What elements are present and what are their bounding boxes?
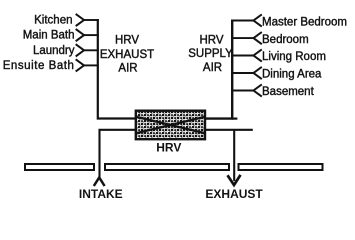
svg-text:Basement: Basement (262, 86, 315, 98)
svg-text:Dining Area: Dining Area (262, 69, 322, 81)
svg-text:Laundry: Laundry (33, 45, 75, 57)
svg-text:INTAKE: INTAKE (79, 187, 123, 201)
svg-text:Main Bath: Main Bath (23, 30, 75, 42)
svg-text:HRV: HRV (115, 35, 139, 47)
svg-text:SUPPLY: SUPPLY (188, 48, 233, 60)
svg-text:EXHAUST: EXHAUST (205, 187, 263, 201)
svg-text:HRV: HRV (199, 35, 223, 47)
svg-text:HRV: HRV (156, 141, 181, 155)
svg-text:EXHAUST: EXHAUST (100, 49, 154, 61)
svg-text:Living Room: Living Room (262, 51, 326, 63)
svg-text:Kitchen: Kitchen (34, 15, 72, 27)
svg-text:AIR: AIR (203, 62, 222, 74)
svg-text:Ensuite Bath: Ensuite Bath (3, 60, 75, 72)
svg-text:AIR: AIR (118, 62, 137, 74)
svg-text:Master Bedroom: Master Bedroom (262, 16, 347, 28)
svg-text:Bedroom: Bedroom (262, 34, 309, 46)
